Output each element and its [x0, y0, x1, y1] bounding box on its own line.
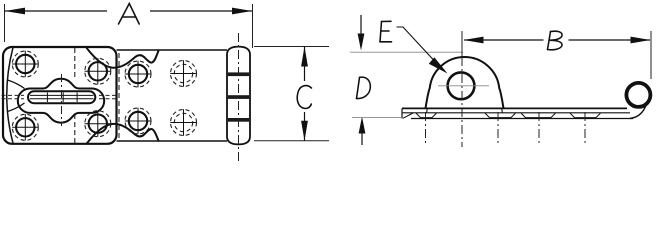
plate mid line — [402, 112, 630, 114]
slot tick 2 — [62, 93, 64, 103]
screw hole 1 (top-left) — [12, 51, 38, 77]
bend line (hidden) — [74, 48, 76, 143]
eye vertical centerline — [461, 57, 463, 147]
strap head arc — [7, 48, 13, 144]
E leader arrowhead — [429, 57, 448, 73]
screw hole 5 (top, col 3) — [125, 61, 151, 87]
staple plate hidden edge — [118, 53, 120, 139]
hinge barrel — [227, 47, 250, 145]
label C — [297, 86, 311, 109]
emboss outline — [18, 79, 104, 123]
dimension C arrow up — [301, 47, 308, 67]
dimension C extension top — [254, 46, 329, 48]
hinge knuckle band 3 — [228, 118, 249, 122]
label B — [548, 31, 563, 50]
dimension B arrow right — [631, 37, 651, 44]
dimension A extension line right — [252, 4, 254, 48]
slot tick 3 — [76, 93, 78, 103]
strap side curve bottom — [87, 124, 159, 144]
label E — [380, 21, 392, 42]
slot hidden lines right — [99, 95, 119, 98]
dimension B arrow left — [464, 37, 484, 44]
label D — [357, 77, 371, 98]
hasp plate (left plate, thick outline) — [3, 47, 117, 144]
dimension B extension right — [650, 31, 652, 79]
dimension C arrow down — [301, 121, 308, 141]
eye horizontal centerline — [438, 85, 489, 87]
hinge knuckle band 1 — [228, 72, 249, 76]
eye hole — [448, 72, 475, 99]
dome leg hidden left — [426, 108, 429, 112]
strap side curve top — [87, 48, 159, 68]
dimension A arrow right — [232, 8, 252, 15]
dimension B line — [464, 39, 650, 41]
screw hole 8 (bottom, col 4, hidden) — [170, 109, 196, 135]
plate top line — [402, 107, 627, 109]
slot — [28, 91, 95, 103]
dimension D extension bottom — [352, 117, 401, 119]
screw hole 3 (top, col 2) — [85, 58, 111, 84]
dimension C extension bottom — [254, 140, 329, 142]
screw hole 7 (top, col 4, hidden) — [170, 60, 196, 86]
roll transition — [630, 104, 647, 119]
dimension A extension line left — [4, 4, 6, 42]
strap neck arc bottom-left — [8, 103, 25, 112]
dome leg hidden right — [501, 108, 504, 112]
hinge knuckle band 2 — [228, 95, 249, 99]
plate left bevel — [403, 113, 413, 118]
hinge centerline — [238, 33, 240, 161]
dimension D arrow top — [360, 15, 362, 34]
label A — [119, 4, 140, 25]
slot inner line lower — [30, 98, 94, 100]
dimension D arrow bottom — [361, 131, 363, 145]
strap neck arc top-left — [8, 80, 25, 89]
dimension A line — [5, 10, 252, 12]
slot tick 1 — [46, 93, 48, 103]
dimension D extension top — [350, 51, 463, 53]
E leader line — [397, 27, 435, 61]
dimension A arrow left — [5, 8, 25, 15]
screw hole 2 (bottom-left) — [12, 114, 38, 140]
plate bottom line — [411, 118, 633, 120]
hole centerlines below plate — [426, 112, 586, 143]
screw hole 6 (bottom, col 3) — [125, 108, 151, 134]
countersink marks — [416, 113, 601, 118]
staple plate (right plate, thin outline) — [117, 50, 228, 141]
dimension C line — [304, 47, 306, 141]
dimension B extension left (eye centerline top) — [461, 31, 463, 57]
slot inner line upper — [30, 94, 94, 96]
slot hidden lines left — [2, 95, 25, 98]
plate left end — [401, 108, 403, 118]
eye dome — [426, 57, 504, 108]
rolled hinge barrel end — [626, 83, 650, 107]
screw hole 4 (bottom, col 2) — [85, 111, 111, 137]
emboss centerline — [61, 74, 63, 126]
